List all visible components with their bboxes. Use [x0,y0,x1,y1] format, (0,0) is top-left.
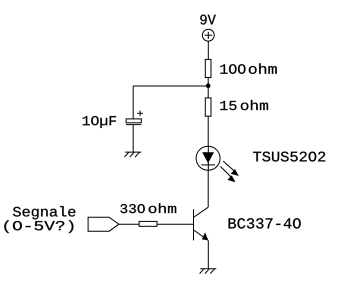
wire: capacitor to ground [132,125,134,153]
value label 15 ohm [220,100,268,110]
transistor emitter arrowhead [202,233,209,241]
resistor 100 ohm [205,59,211,77]
label (0-5V?) [4,220,73,233]
node junction dot [206,83,211,88]
resistor 330 ohm [139,221,157,226]
resistor 15 ohm [205,98,211,116]
transistor Q BC337-40 (NPN): base bar [193,209,195,240]
wire: tag to 330ohm [119,223,139,225]
LED D TSUS5202 (circle, cathode wire) [207,146,209,170]
value label 100 ohm [220,63,276,73]
part label TSUS5202 [253,152,325,162]
wire: emitter to ground [207,240,209,268]
LED cathode bar [201,164,215,166]
LED anode triangle [202,152,214,163]
wire: LED cathode to Q collector [207,170,209,207]
wire: 330ohm to Q base [157,223,194,225]
ground (capacitor) [125,152,142,157]
wire: junction to capacitor branch (horizontal) [133,85,208,87]
capacitor C 10uF electrolytic (plus sign, box plate, line plate) [126,111,143,125]
transistor collector diagonal [194,207,209,217]
input connector tag (Segnale) [88,217,119,231]
LED light arrow 2 [220,166,235,182]
ground (emitter) [200,269,217,274]
wire: down to capacitor plus plate [132,86,134,119]
label Segnale [13,206,75,219]
transistor emitter diagonal [194,230,209,241]
value label 330 ohm [120,203,176,213]
wire: 15ohm to LED anode [207,116,209,146]
part label BC337-40 [229,218,301,228]
wire: 100ohm to node junction [207,78,209,98]
wire: 9V terminal to resistor 100ohm [207,41,209,59]
LED light arrow 1 [223,161,239,176]
net 9V label [200,15,216,25]
power terminal 9V (circle with plus) [202,29,214,41]
value label 10uF [83,116,116,128]
